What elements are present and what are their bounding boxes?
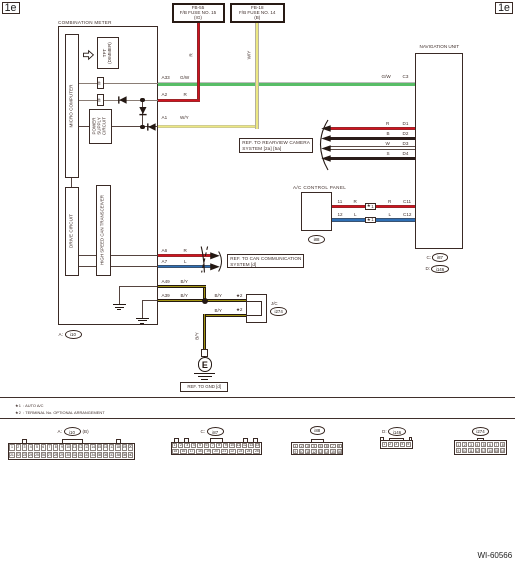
- ref to GND box: [180, 382, 228, 392]
- connector i88 pins row1: [293, 444, 342, 449]
- label S D4: [387, 151, 390, 156]
- wire JC lower B/Y: [203, 314, 246, 317]
- label R D1: [386, 121, 389, 126]
- label R left of star1: [354, 199, 357, 204]
- fuse FB-18 F/B FUSE NO.14 (B): [230, 3, 285, 24]
- label B/Y on A39: [181, 293, 188, 298]
- micro computer box: [65, 34, 80, 178]
- connector A pins row2: [9, 452, 133, 458]
- footnote divider line top: [0, 397, 515, 398]
- rearview bundle arc: [313, 119, 331, 171]
- connector D pins: [382, 442, 411, 447]
- label B/Y before JC lower: [215, 308, 222, 313]
- TFT dimmer box: [97, 37, 120, 69]
- connector i274 oval: [472, 427, 489, 436]
- I/F box 1: [97, 77, 104, 89]
- wire A2 R red: [158, 99, 201, 102]
- label A33: [162, 75, 170, 80]
- wire A7 internal: [79, 266, 158, 267]
- label 11: [338, 199, 343, 204]
- connector oval i274 JC: [270, 307, 287, 317]
- arrow A6 right: [210, 252, 220, 260]
- label W/Y: [180, 115, 189, 120]
- connector i274 body: [454, 440, 506, 454]
- arrow A7 right: [210, 263, 220, 271]
- combination meter box: [58, 26, 158, 325]
- wire B/Y vertical to ground: [203, 314, 206, 350]
- wire A33 G/W green: [158, 82, 416, 86]
- label B/Y rotated on ground wire: [196, 332, 201, 339]
- label A49: [162, 279, 170, 284]
- junction dot A49/A39: [202, 298, 208, 304]
- CAN bundle right arc: [218, 251, 226, 272]
- junction dot on A2: [140, 98, 144, 102]
- label C12: [403, 212, 411, 217]
- link micro computer to drive circuit: [71, 178, 72, 187]
- wire A6 internal: [79, 255, 158, 256]
- high speed CAN transceiver box: [96, 185, 112, 276]
- ref to rearview camera system box: [239, 138, 312, 153]
- drive circuit label: [69, 214, 74, 248]
- wire D1 R red: [330, 127, 416, 130]
- connector C body: [171, 442, 262, 455]
- high speed CAN transceiver label: [101, 195, 106, 265]
- wire pin11 to C11 red: [332, 205, 415, 208]
- connector i274 pins row2: [456, 448, 506, 454]
- connector A pins row1: [9, 444, 133, 450]
- ground connector square: [201, 349, 208, 356]
- label R rotated on fuse wire: [189, 53, 194, 56]
- arrow D4: [321, 155, 331, 162]
- connector i88 pins row2: [293, 449, 342, 454]
- label B/Y on A49: [181, 279, 188, 284]
- ref to CAN communication system box: [227, 254, 305, 268]
- connector oval D i146: [426, 266, 431, 271]
- wire A7 L blue: [158, 265, 212, 268]
- ground E circle: [198, 357, 213, 372]
- connector A body: [8, 443, 135, 460]
- label A2: [162, 92, 168, 97]
- joint connector JC box outer: [246, 294, 268, 322]
- arrow D3: [321, 145, 331, 152]
- connector i88 body: [291, 442, 343, 454]
- label R right of star1: [388, 199, 391, 204]
- wire pin12 to C12 blue: [332, 218, 415, 221]
- internal ground 2 wire: [142, 300, 157, 301]
- wire W/Y vertical from FB-18: [255, 23, 259, 129]
- connector i88 oval: [310, 426, 326, 435]
- connector oval C i87: [427, 255, 432, 260]
- label A39: [162, 293, 170, 298]
- connector oval i88: [308, 235, 325, 245]
- connector C tabs: [174, 438, 179, 443]
- connector C pins row1: [172, 443, 261, 448]
- label C3: [403, 74, 409, 79]
- page ref 1e right: [495, 2, 513, 15]
- micro computer label: [69, 84, 74, 127]
- wire R vertical from FB-55: [197, 23, 200, 102]
- connector D label: [382, 429, 387, 434]
- label L on A7: [184, 259, 187, 264]
- I/F label 2: [98, 98, 103, 102]
- arrow D1: [321, 125, 331, 132]
- connector C pins row2: [172, 449, 261, 454]
- diode on A1 line: [147, 123, 157, 131]
- internal ground 1 wire: [119, 286, 157, 287]
- label J/C: [271, 301, 278, 306]
- ground E stem: [204, 356, 205, 357]
- CAN twisted pair dashed arc: [200, 246, 209, 273]
- label A1: [162, 115, 168, 120]
- label L left of star1: [354, 212, 357, 217]
- A/C control panel box: [301, 192, 332, 231]
- navigation unit box: [415, 53, 463, 250]
- connector i88 tab: [311, 439, 324, 444]
- label 12: [338, 212, 343, 217]
- footnote star2: [15, 410, 105, 415]
- diode on A2 line: [118, 96, 128, 104]
- label B D2: [387, 131, 390, 136]
- label star2 lower: [236, 307, 242, 312]
- label G/W right: [382, 74, 391, 79]
- A/C control panel label: [293, 185, 346, 190]
- label G/W left: [180, 75, 189, 80]
- connector D body: [380, 440, 413, 449]
- connector oval A i10: [59, 332, 63, 337]
- joint connector JC box inner: [246, 301, 262, 316]
- wire A49 B/Y horizontal: [158, 285, 207, 288]
- junction dot on A1: [140, 125, 144, 129]
- wire D2 B black: [330, 137, 416, 140]
- footnote star1: [15, 403, 43, 408]
- label A6: [162, 248, 168, 253]
- power supply circuit label: [93, 117, 108, 135]
- label A7: [162, 259, 168, 264]
- connector C label: [201, 429, 206, 434]
- fuse FB-55 F/B FUSE NO.15 (IG): [172, 3, 225, 24]
- wire D3 W white double line: [330, 145, 416, 148]
- wire junction vertical A2 to A1: [142, 100, 143, 127]
- wire D4 S shield black: [330, 157, 416, 160]
- optional box star1 upper: [365, 203, 377, 209]
- I/F label 1: [98, 81, 103, 85]
- footnote divider line bottom: [0, 418, 515, 419]
- label W D3: [386, 141, 390, 146]
- CAN twisted pair solid arc: [200, 246, 208, 273]
- navigation unit label: [420, 44, 460, 49]
- wire power supply to A1 internal: [79, 126, 89, 127]
- wire A6 R red: [158, 254, 212, 257]
- label R on A6: [184, 248, 187, 253]
- page ref 1e left: [2, 2, 20, 15]
- drive circuit box: [65, 187, 80, 276]
- label W/Y rotated on fuse wire: [247, 51, 252, 60]
- ground symbol hatch: [194, 373, 215, 374]
- wire A1 W/Y pale yellow: [158, 125, 259, 128]
- diode vertical pointing down: [139, 106, 147, 116]
- connector i274 tab: [477, 438, 484, 442]
- label C11: [403, 199, 411, 204]
- label star2 upper: [236, 293, 242, 298]
- drawing number WI-60566: [478, 551, 513, 560]
- TFT dimmer label: [103, 42, 113, 64]
- arrow D2: [321, 135, 331, 142]
- wire A39 B/Y horizontal to JC: [158, 299, 247, 302]
- connector i274 pins row1: [456, 442, 506, 448]
- label B/Y before JC upper: [215, 293, 222, 298]
- optional box star1 lower: [365, 217, 377, 223]
- block arrow to TFT: [83, 50, 94, 60]
- label L right of star1: [389, 212, 392, 217]
- power supply circuit box: [89, 109, 113, 144]
- internal ground 1 symbol: [113, 304, 126, 305]
- I/F box 2: [97, 94, 104, 106]
- combination meter label: [58, 20, 112, 25]
- wire A49 B/Y vertical drop: [203, 288, 206, 301]
- connector A tabs: [22, 439, 27, 444]
- internal ground 2 symbol: [136, 318, 149, 319]
- connector D bumps: [380, 437, 384, 440]
- wire A33 internal: [79, 83, 158, 84]
- label R: [184, 92, 187, 97]
- connector A label: [58, 429, 62, 434]
- wire A2 internal: [79, 100, 158, 101]
